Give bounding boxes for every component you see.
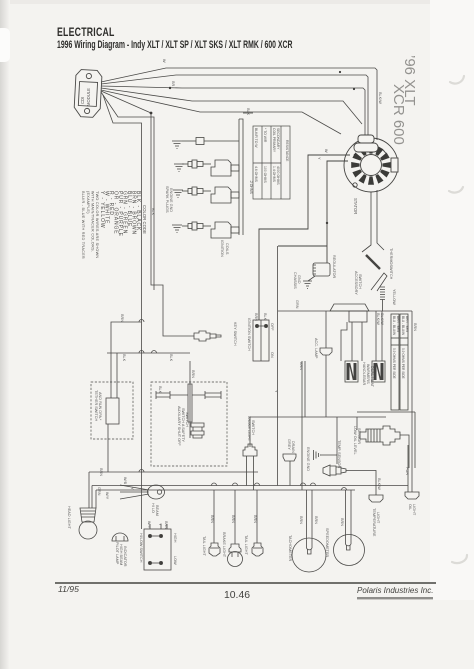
svg-text:BRAKE LIGHT: BRAKE LIGHT: [222, 532, 226, 558]
svg-text:BLK/W: BLK/W: [377, 478, 381, 490]
svg-text:COIL PRIMARY: COIL PRIMARY: [272, 128, 276, 153]
svg-text:BLK/W: BLK/W: [378, 92, 382, 104]
svg-text:BRN: BRN: [164, 521, 168, 529]
svg-text:W: W: [162, 59, 166, 63]
svg-text:BRN - BRN: BRN - BRN: [396, 316, 400, 333]
svg-text:SECONDARY: SECONDARY: [276, 128, 280, 150]
svg-text:BRN: BRN: [299, 362, 303, 370]
svg-text:HANDLEBAR: HANDLEBAR: [362, 362, 366, 385]
svg-text:BLU - BLU/W: BLU - BLU/W: [392, 316, 396, 335]
svg-text:TACHOMETER: TACHOMETER: [288, 535, 292, 562]
svg-text:ACCESSORY: ACCESSORY: [354, 271, 358, 295]
svg-text:4000 OHMS: 4000 OHMS: [276, 166, 280, 185]
svg-text:GRN: GRN: [295, 300, 299, 309]
svg-text:MODULE: MODULE: [86, 88, 91, 106]
svg-text:HI/LOW SWITCH: HI/LOW SWITCH: [139, 533, 143, 563]
svg-text:DRAIN: DRAIN: [291, 441, 295, 453]
svg-text:HEAD LIGHT: HEAD LIGHT: [67, 506, 71, 529]
svg-text:BRN: BRN: [340, 518, 344, 526]
svg-text:CHASSIS: CHASSIS: [293, 272, 297, 289]
svg-text:GND: GND: [297, 275, 301, 284]
svg-text:HIGH BEAM: HIGH BEAM: [119, 544, 123, 565]
svg-text:BRN: BRN: [253, 515, 257, 523]
svg-text:LOW: LOW: [173, 556, 177, 565]
svg-text:KEY SWITCH: KEY SWITCH: [233, 322, 237, 346]
svg-text:WARMERS: WARMERS: [366, 364, 370, 384]
svg-text:BLK: BLK: [246, 108, 250, 116]
svg-text:COILS: COILS: [225, 243, 229, 255]
svg-text:LOW OIL LEVEL: LOW OIL LEVEL: [353, 426, 357, 455]
svg-text:BLU - BLU/W: BLU - BLU/W: [401, 316, 405, 335]
svg-text:SWITCH: SWITCH: [185, 412, 189, 427]
svg-text:REGULATOR: REGULATOR: [332, 255, 336, 279]
svg-text:W/B: W/B: [123, 477, 127, 485]
svg-text:XCR 600: XCR 600: [390, 84, 407, 145]
svg-text:W: W: [324, 149, 328, 153]
svg-text:GREY: GREY: [287, 439, 291, 450]
svg-text:INDICATOR: INDICATOR: [123, 546, 127, 567]
svg-text:YELLOW: YELLOW: [392, 289, 396, 305]
svg-text:10.46: 10.46: [224, 590, 250, 601]
svg-text:* TO W/R: * TO W/R: [263, 128, 267, 143]
svg-text:ENGINE GND: ENGINE GND: [169, 188, 173, 212]
svg-text:BLK/R TO W: BLK/R TO W: [254, 128, 258, 148]
svg-text:BEAM: BEAM: [155, 505, 159, 516]
svg-text:BRN: BRN: [120, 314, 124, 322]
svg-text:4.6 OHMS: 4.6 OHMS: [254, 166, 258, 183]
svg-text:DUAL HEAT: DUAL HEAT: [370, 366, 374, 388]
svg-text:WITH MAIN/TRACER COLORS.: WITH MAIN/TRACER COLORS.: [91, 191, 95, 252]
svg-text:1996 Wiring Diagram - Indy XLT: 1996 Wiring Diagram - Indy XLT / XLT SP …: [57, 39, 293, 51]
svg-text:0.9 OHMS PER SIDE: 0.9 OHMS PER SIDE: [392, 348, 396, 379]
svg-text:BLK/W: BLK/W: [380, 313, 384, 325]
svg-text:BRN - BRN: BRN - BRN: [405, 316, 409, 333]
svg-text:BRAKE LIGHT: BRAKE LIGHT: [247, 416, 251, 442]
svg-text:LIGHT: LIGHT: [412, 504, 416, 516]
svg-text:ACC. LAMP: ACC. LAMP: [314, 338, 318, 359]
svg-text:BLU/R - BLUE WITH RED TRACER: BLU/R - BLUE WITH RED TRACER: [81, 191, 85, 259]
svg-text:COLOR CODE: COLOR CODE: [142, 205, 147, 234]
svg-text:100 OHMS: 100 OHMS: [263, 166, 267, 184]
svg-text:SWITCH: SWITCH: [358, 274, 362, 289]
svg-text:OFF: OFF: [270, 323, 274, 331]
svg-text:BLK: BLK: [158, 386, 162, 394]
svg-text:IGNITION: IGNITION: [220, 240, 224, 257]
svg-text:TETHER SWITCH: TETHER SWITCH: [94, 390, 98, 421]
svg-text:ON: ON: [270, 352, 274, 358]
svg-text:HI LO: HI LO: [151, 503, 155, 513]
svg-text:0.9 OHMS PER SIDE: 0.9 OHMS PER SIDE: [401, 348, 405, 379]
svg-text:TEMPERATURE: TEMPERATURE: [372, 508, 376, 537]
svg-text:BLK: BLK: [122, 354, 126, 362]
svg-text:RESISTANCE: RESISTANCE: [285, 140, 289, 162]
svg-text:TWO COLOR WIRES ARE SHOWN: TWO COLOR WIRES ARE SHOWN: [95, 191, 99, 258]
svg-text:W/Y: W/Y: [105, 492, 109, 500]
svg-text:BRN: BRN: [191, 370, 195, 378]
svg-text:LIGHT: LIGHT: [376, 512, 380, 524]
svg-text:BRN: BRN: [231, 515, 235, 523]
svg-text:BRN: BRN: [210, 515, 214, 523]
svg-text:BLK: BLK: [151, 208, 155, 216]
svg-text:Polaris Industries Inc.: Polaris Industries Inc.: [357, 586, 433, 595]
svg-text:1.4 OHMS: 1.4 OHMS: [272, 166, 276, 183]
svg-text:OIL: OIL: [408, 504, 412, 510]
svg-text:BRN: BRN: [299, 516, 303, 524]
svg-text:TAIL LIGHT: TAIL LIGHT: [244, 535, 248, 556]
svg-text:(EXAMPLE): (EXAMPLE): [86, 191, 90, 214]
svg-text:TEMP. SENSOR: TEMP. SENSOR: [337, 440, 341, 468]
svg-text:BRN: BRN: [254, 313, 258, 321]
svg-text:BR: BR: [171, 81, 175, 87]
svg-text:BRN: BRN: [314, 516, 318, 524]
svg-text:BLK: BLK: [263, 313, 267, 321]
svg-text:CDI: CDI: [80, 97, 85, 104]
svg-text:IGNITION SWITCH: IGNITION SWITCH: [247, 318, 251, 351]
svg-text:GRN: GRN: [97, 487, 101, 496]
svg-text:SENSOR: SENSOR: [357, 428, 361, 444]
svg-text:THERMOSWITCH: THERMOSWITCH: [389, 248, 393, 280]
svg-text:BLK: BLK: [169, 354, 173, 362]
svg-text:BRN: BRN: [413, 323, 417, 331]
svg-text:SPEEDOMETER: SPEEDOMETER: [325, 528, 329, 557]
svg-text:HIGH: HIGH: [173, 533, 177, 543]
svg-text:PILOT LAMP: PILOT LAMP: [115, 542, 119, 565]
svg-text:11/95: 11/95: [58, 584, 79, 594]
svg-text:BRN: BRN: [99, 468, 103, 476]
svg-text:SWITCH: SWITCH: [251, 420, 255, 435]
svg-text:ENGINE GND: ENGINE GND: [306, 447, 310, 471]
svg-text:BLK/W: BLK/W: [376, 313, 380, 325]
svg-text:SPARK PLUGS: SPARK PLUGS: [165, 186, 169, 213]
svg-text:STATOR: STATOR: [353, 198, 358, 214]
svg-text:SWITCH A SAFETY: SWITCH A SAFETY: [181, 408, 185, 442]
svg-text:PUR: PUR: [405, 467, 409, 475]
svg-text:.2 OHMS: .2 OHMS: [249, 180, 253, 195]
svg-text:AUXILIARY SHUT OFF: AUXILIARY SHUT OFF: [177, 406, 181, 446]
svg-text:TAIL LIGHT: TAIL LIGHT: [202, 536, 206, 557]
svg-text:W/Y: W/Y: [147, 521, 151, 529]
svg-text:AND RUN DPA.*: AND RUN DPA.*: [98, 392, 102, 421]
